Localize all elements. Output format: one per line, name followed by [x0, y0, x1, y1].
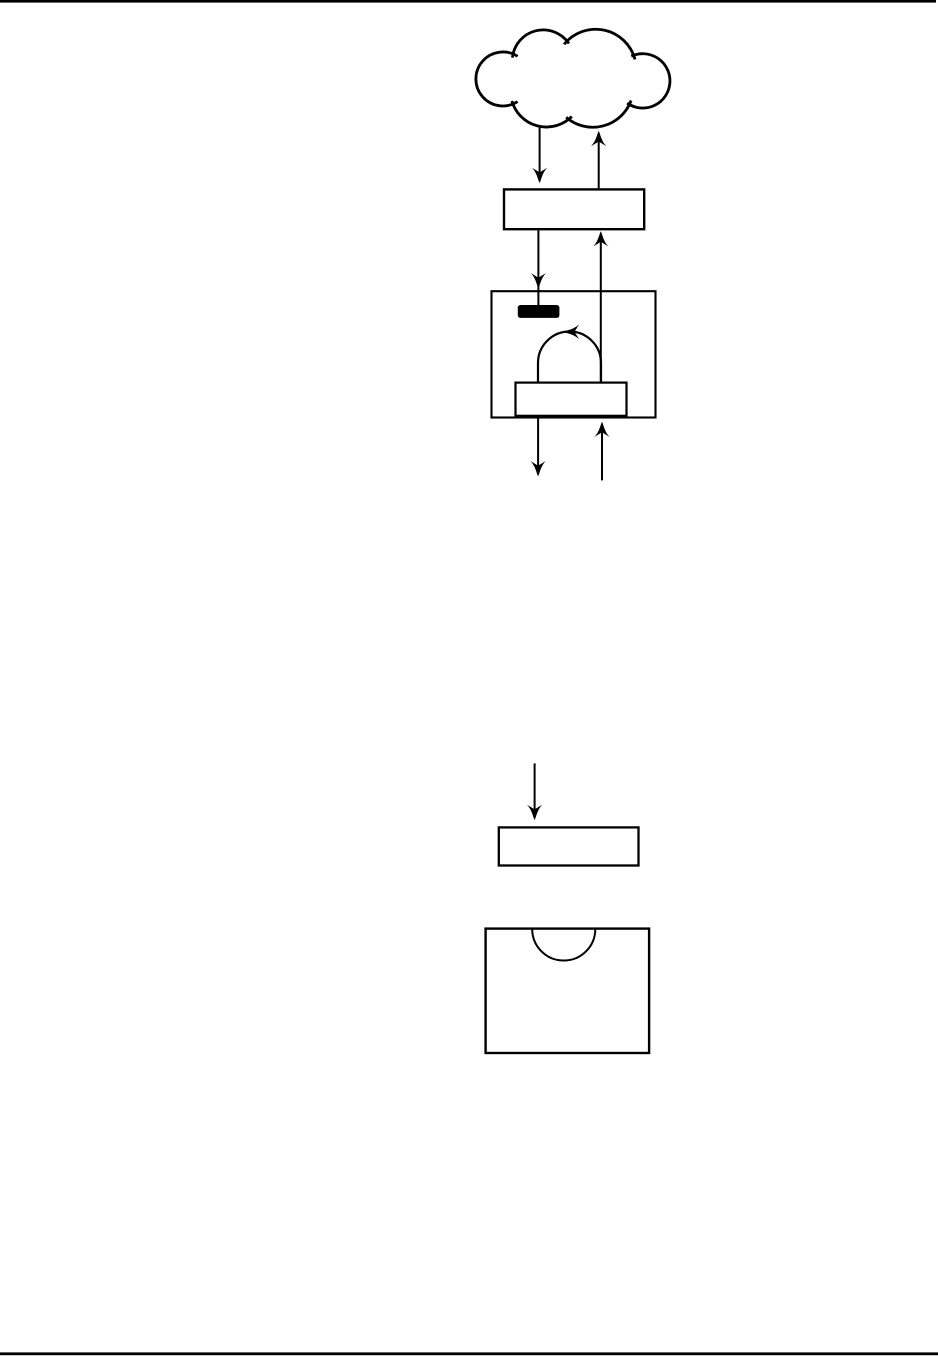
- top-right puff: [564, 29, 635, 59]
- arrowhead up at rect1 bottom: [593, 231, 608, 246]
- notch semicircle on box2 top: [532, 929, 595, 961]
- arrowhead down below box1: [531, 461, 546, 476]
- rect2: [499, 827, 639, 865]
- loop arc (redial): [538, 332, 601, 382]
- inner rect: application: [516, 383, 627, 416]
- wire: box1 down and out: [537, 416, 539, 469]
- box1: computer: [492, 291, 656, 417]
- right puff: [627, 54, 670, 108]
- header rule: [0, 0, 936, 3]
- wire: up into box1 from below: [601, 428, 603, 480]
- wire: down into rect2: [534, 763, 536, 813]
- black bar (network card): [518, 305, 560, 318]
- box2: [486, 929, 649, 1053]
- wire: rect1 to black bar (down): [537, 230, 539, 305]
- bottom-left puff: [512, 101, 572, 127]
- arrowhead up at box1 bottom: [594, 422, 609, 437]
- wire: rect1 to cloud (up): [598, 136, 600, 188]
- arrowhead down at rect1 top: [532, 168, 547, 183]
- arrowhead down at rect2 top: [527, 805, 542, 820]
- arrowhead up at cloud bottom: [591, 131, 606, 146]
- left puff: [476, 52, 518, 106]
- footer rule: [0, 1352, 938, 1355]
- cloud (Internet): [476, 29, 671, 128]
- rect1: modem box: [504, 189, 644, 229]
- arrowhead down at box1 top: [531, 273, 546, 288]
- bottom-right puff: [566, 101, 631, 128]
- wire: cloud to rect1 (down): [539, 128, 541, 176]
- top-left puff: [512, 30, 569, 58]
- arrowhead left at arc apex: [564, 324, 579, 339]
- wire: inner rect to rect1 (up): [600, 237, 602, 382]
